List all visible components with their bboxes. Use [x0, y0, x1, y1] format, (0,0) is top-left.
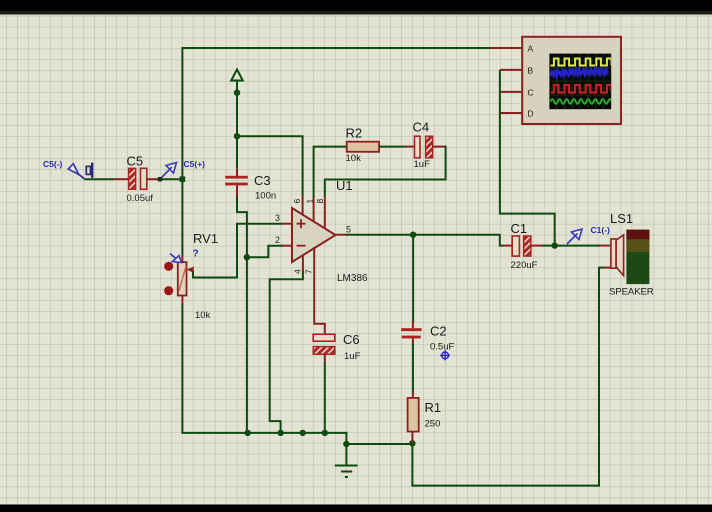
junction dot on VCC wire — [234, 90, 240, 96]
wire: bottom rail A drop to ground rail — [345, 432, 347, 444]
svg-text:C5(+): C5(+) — [184, 159, 206, 169]
wire: C2 to R1 — [412, 344, 414, 393]
capacitor C3 plates — [225, 176, 248, 186]
svg-text:4: 4 — [293, 269, 303, 274]
svg-text:A: A — [528, 44, 534, 54]
svg-text:6: 6 — [292, 199, 302, 204]
wire: branch to op-amp pin 2 — [247, 246, 283, 258]
pin: op-amp pin 7 long stub (red) — [314, 247, 325, 335]
pin: C5 right stub (red) — [147, 178, 160, 180]
svg-text:0.05uf: 0.05uf — [127, 193, 154, 204]
svg-text:C1(-): C1(-) — [591, 225, 611, 235]
power symbol VCC arrow — [231, 70, 243, 93]
svg-text:C2: C2 — [430, 324, 447, 339]
capacitor C5 plates (left hatched, right hollow) — [129, 168, 147, 189]
speaker LS1 box — [626, 230, 649, 284]
wire: C1 out to speaker — [542, 245, 600, 247]
speaker LS1 symbol — [611, 235, 624, 276]
wire: left vertical rail (C5 out / RV1) — [181, 47, 183, 256]
oscilloscope pin A (red stub) — [490, 47, 522, 49]
pin: op-amp pin 6 stub (red) — [302, 196, 304, 216]
junction dot ground rail at R1 — [343, 441, 349, 447]
junction dots on bottom rail — [245, 430, 251, 436]
pin: C6 bottom stub (red) — [324, 354, 326, 363]
svg-text:100n: 100n — [255, 191, 276, 202]
svg-text:0.5uF: 0.5uF — [430, 342, 454, 353]
wire: input wire left of C5 — [85, 178, 114, 180]
oscilloscope body — [522, 37, 621, 124]
resistor R2 — [347, 142, 379, 152]
svg-text:C5: C5 — [127, 154, 144, 169]
svg-text:250: 250 — [425, 419, 441, 430]
wire: C5 out to left rail — [160, 178, 182, 180]
svg-text:C3: C3 — [254, 173, 271, 188]
pin: op-amp pin 8 stub (red) — [324, 196, 326, 229]
wire: VCC branch to op-amp pin 6 — [237, 136, 303, 197]
oscilloscope pin C (red stub) — [500, 91, 522, 93]
pin: C3 bottom stub (red) — [236, 185, 238, 198]
probe C1(-) blue arrow — [567, 229, 582, 244]
oscilloscope pin D (red stub) — [500, 112, 522, 114]
video letterbox top bar — [0, 0, 712, 15]
RV1 interactive buttons (red circles) — [164, 262, 173, 271]
svg-text:5: 5 — [346, 225, 351, 235]
oscilloscope pin B (red stub) — [500, 69, 522, 71]
trace D green sine wave — [551, 99, 612, 104]
capacitor C6 plates (top hollow, bottom hatched) — [313, 334, 335, 354]
pin: R1 bottom stub (red) — [411, 432, 413, 443]
wire: C3 bottom jog to ground column — [236, 197, 247, 433]
svg-text:C1: C1 — [511, 221, 528, 236]
svg-text:3: 3 — [275, 213, 280, 223]
svg-text:10k: 10k — [195, 310, 211, 321]
wire: speaker bottom pin horizontal — [598, 267, 604, 269]
pin: speaker bottom pin stub (red) — [604, 267, 612, 269]
pin: op-amp pin 2 stub (red) — [282, 245, 293, 247]
pin: C4 right stub (red) — [433, 146, 446, 148]
junction dot VCC branch to pin 6 — [234, 133, 240, 139]
wire: pin 4 down to bottom rail with jog — [270, 271, 303, 433]
svg-text:R1: R1 — [425, 400, 442, 415]
pin: C1 left stub (red) — [502, 245, 512, 247]
ground symbol — [335, 444, 358, 477]
wire: R1 bottom down to lowest rail — [411, 444, 413, 486]
svg-text:RV1: RV1 — [193, 231, 218, 246]
svg-text:SPEAKER: SPEAKER — [609, 287, 654, 298]
trace C red square wave — [551, 85, 611, 93]
wire: scope B/C/D column — [500, 70, 555, 246]
pin: C5 left stub (red) — [114, 178, 130, 180]
svg-text:C6: C6 — [343, 332, 360, 347]
svg-text:LM386: LM386 — [337, 273, 368, 284]
junction: C5 output on left rail (square dot) — [180, 176, 186, 182]
wire: ground rail B to R1 bottom — [346, 443, 412, 445]
svg-text:D: D — [528, 109, 534, 119]
wire: R2 right to C4 — [379, 146, 406, 148]
wire: pin 1 up to R2 left — [314, 147, 347, 197]
audio input icon — [86, 163, 92, 178]
svg-text:B: B — [528, 66, 534, 76]
capacitor C1 plates (left hollow, right hatched) — [512, 236, 531, 256]
svg-text:LS1: LS1 — [610, 211, 633, 226]
wire: output run to C1 — [346, 235, 503, 246]
svg-text:8: 8 — [315, 199, 325, 204]
trace B blue noisy wave — [551, 69, 608, 76]
junction dot: C2 branch on output — [410, 232, 416, 238]
junction dot: pin2 branch off ground column — [244, 254, 250, 260]
capacitor C2 plates — [401, 328, 422, 338]
pin: C2 top stub (red) — [412, 321, 414, 328]
pin: op-amp pin 3 stub (red) — [282, 223, 293, 225]
wire: top power rail from left rail to oscilloscope A — [182, 47, 490, 49]
svg-text:220uF: 220uF — [511, 260, 538, 271]
wire: lowest rail to speaker column — [411, 485, 599, 487]
svg-text:?: ? — [193, 249, 199, 260]
probe C5(+) blue arrow — [162, 163, 177, 178]
junction dot where scope feed meets speaker wire — [552, 242, 558, 248]
svg-text:C: C — [528, 88, 534, 98]
junction: probe point after C5 — [158, 177, 162, 181]
wire: C6 bottom to rail — [324, 362, 326, 433]
wire: VCC down to C3 — [236, 92, 238, 169]
potentiometer RV1 — [178, 256, 194, 305]
wire: C4 right down and back to pin 8 — [325, 146, 446, 197]
wire: left rail below RV1 down to bottom rail — [181, 304, 183, 433]
op-amp U1 triangle — [292, 208, 336, 262]
pin: speaker top stub (red) — [600, 245, 612, 247]
svg-text:7: 7 — [304, 269, 314, 274]
resistor R1 — [408, 398, 419, 432]
origin marker (blue crosshair) — [440, 350, 450, 360]
op-amp + input mark — [297, 219, 306, 228]
probe arrow on RV1 — [170, 254, 182, 263]
pin: C4 left stub (red) — [406, 146, 415, 148]
video letterbox bottom bar — [0, 504, 712, 505]
pin: C2 bottom stub (red) — [412, 338, 414, 344]
svg-text:1uF: 1uF — [414, 159, 431, 170]
wire: bottom rail A — [181, 432, 346, 434]
capacitor C4 plates (left hollow, right hatched) — [415, 136, 433, 158]
svg-text:C5(-): C5(-) — [43, 159, 63, 169]
pin: R1 top stub (red) — [412, 391, 414, 398]
wire: speaker return column up — [598, 268, 600, 487]
svg-text:10k: 10k — [346, 153, 362, 164]
pin: C1 right stub (red) — [531, 245, 543, 247]
wire: RV1 wiper to op-amp pin 3 — [193, 224, 283, 278]
trace A yellow square wave — [551, 59, 612, 66]
svg-text:2: 2 — [275, 235, 280, 245]
op-amp - input mark — [297, 245, 306, 247]
svg-text:1uF: 1uF — [344, 351, 361, 362]
svg-text:R2: R2 — [346, 126, 363, 141]
pin: op-amp pin 1 stub (red) — [313, 196, 315, 222]
probe C5(-) blue arrow at input — [68, 164, 84, 179]
pin: op-amp pin 4 stub (red) — [302, 255, 304, 272]
wire: op-amp output pin 5 (red stub) — [336, 234, 348, 236]
wire: C2 branch down — [412, 235, 414, 322]
oscilloscope screen — [549, 54, 611, 110]
svg-text:C4: C4 — [413, 120, 430, 135]
